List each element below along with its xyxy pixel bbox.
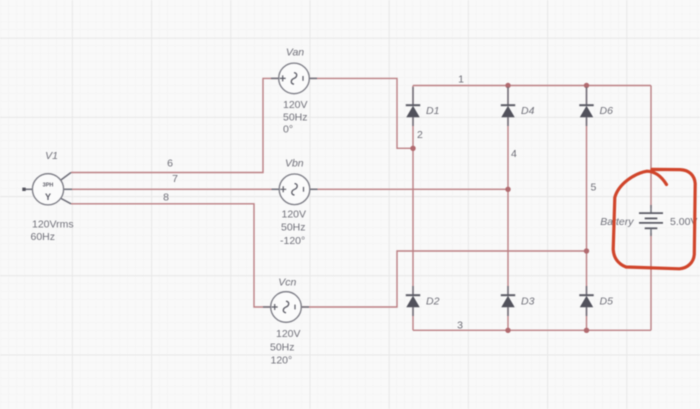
svg-text:Van: Van [286,47,304,59]
junction node 4 [505,187,510,192]
wire net 6 [71,78,279,172]
V1 value labels [31,218,74,242]
wire net 5 (Vcn to D6/D5 column) [302,117,587,307]
svg-text:2: 2 [417,129,423,141]
Vcn value labels [270,328,301,367]
svg-text:D6: D6 [600,105,614,117]
svg-text:-120°: -120° [280,235,305,247]
junction node 2 [410,146,415,151]
diode D3 [501,286,515,316]
svg-text:50Hz: 50Hz [281,222,306,234]
AC source Vcn [263,292,309,323]
svg-text:4: 4 [511,148,517,160]
junction on net 3 at D5 [584,328,589,333]
svg-text:120V: 120V [283,99,308,111]
wire net 7 [71,188,279,190]
diode D6 [579,87,593,126]
Vbn value labels [280,209,306,247]
Van value labels [283,99,308,136]
svg-text:3: 3 [457,319,463,331]
svg-text:5: 5 [591,182,597,194]
svg-text:D1: D1 [426,105,439,117]
wire net 1 (top rail) [413,86,651,209]
svg-text:D4: D4 [521,105,535,117]
diode D1 [406,87,420,126]
svg-text:3PH: 3PH [43,182,54,188]
svg-text:D2: D2 [426,296,440,308]
svg-text:1: 1 [458,74,464,86]
wire net 4 (Vbn to D4/D3 column) [310,117,508,295]
svg-text:0°: 0° [283,124,293,136]
wire net 8 [71,204,271,307]
AC source Van [271,63,317,94]
junction on net 1 at D4 [505,83,510,88]
hand-drawn annotation circle around battery [613,169,695,268]
AC source Vbn [272,174,318,205]
svg-text:50Hz: 50Hz [283,112,308,124]
svg-text:120V: 120V [276,328,301,340]
svg-text:50Hz: 50Hz [270,341,295,353]
wire net 3 (bottom rail) [413,233,651,330]
svg-text:6: 6 [167,158,173,170]
svg-text:D5: D5 [600,296,614,308]
svg-text:120V: 120V [282,209,307,221]
svg-text:Battery: Battery [600,216,634,228]
svg-text:Vcn: Vcn [278,277,296,289]
junction on net 1 at D6 [584,83,589,88]
svg-text:Vbn: Vbn [285,158,304,170]
svg-text:8: 8 [163,191,169,203]
junction on net 3 at D3 [505,328,510,333]
diode D2 [406,286,420,316]
junction node 5 [584,248,589,253]
battery V2 [639,205,663,236]
wire net 2 (Van to D1/D2 column) [310,78,414,295]
svg-text:D3: D3 [521,296,535,308]
diode D4 [501,87,515,126]
svg-text:7: 7 [172,173,178,185]
svg-text:V1: V1 [45,150,58,162]
svg-text:120Vrms: 120Vrms [32,218,74,230]
svg-text:60Hz: 60Hz [31,231,56,243]
svg-text:120°: 120° [271,355,293,367]
diode D5 [579,286,593,316]
svg-text:Y: Y [45,192,51,202]
three-phase source V1 [22,173,72,205]
